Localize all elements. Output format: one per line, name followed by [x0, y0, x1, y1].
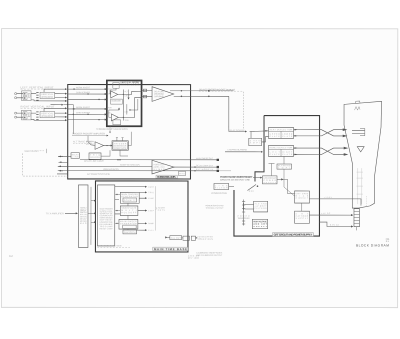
node: terminal square B [217, 166, 219, 168]
wire [88, 136, 95, 146]
node: chopped blanking label [225, 148, 263, 151]
wire: dashed mains [249, 190, 254, 192]
box: CRT circuit outline (notched) [234, 116, 320, 237]
svg-text:MAIN TIME BASE GEN: MAIN TIME BASE GEN [97, 245, 121, 248]
wire: horiz run C [58, 170, 219, 172]
wire [182, 237, 183, 239]
svg-text:CIRCUITS 115 230 VOLT LINE: CIRCUITS 115 230 VOLT LINE [220, 180, 250, 182]
svg-text:NORM MAG SWITCH: NORM MAG SWITCH [103, 168, 120, 171]
svg-text:VERTICAL: VERTICAL [41, 112, 54, 115]
node: mode switch title [120, 81, 139, 86]
svg-text:VERTICAL: VERTICAL [41, 93, 54, 96]
svg-text:EXT HORIZ IN: EXT HORIZ IN [196, 169, 214, 171]
op-amp: left channel amplifier [111, 91, 118, 98]
node: supply note [0, 0, 1, 1]
wire [44, 89, 67, 92]
svg-text:MAG: MAG [80, 222, 87, 225]
svg-text:AC POWER INPUT FUSE: AC POWER INPUT FUSE [211, 192, 228, 195]
box: time base section outline [95, 181, 188, 252]
wire [142, 89, 153, 91]
svg-text:GAIN VERNIER: GAIN VERNIER [76, 111, 91, 114]
svg-text:AND CALIBRATOR OUTPUT: AND CALIBRATOR OUTPUT [196, 254, 223, 257]
node: trigger input labels [86, 141, 95, 146]
node: CRT anode button [355, 101, 360, 103]
wire [55, 97, 67, 99]
svg-text:NORM INVERT: NORM INVERT [76, 107, 91, 109]
wire: horiz run A [80, 159, 218, 161]
node: sweep control text [100, 208, 114, 231]
node: main intensity label [25, 149, 47, 153]
wire: X crossover vert pair [320, 129, 347, 137]
node: LEFT VERT input label [21, 85, 55, 89]
node: CRT circuit heading [272, 233, 313, 237]
component: termination network [143, 95, 146, 98]
wire [31, 93, 36, 95]
wire: run C tail [219, 170, 231, 172]
wire: delay driver output upper [170, 90, 233, 92]
node: selector label [80, 208, 87, 225]
wire [91, 200, 95, 202]
switch S101 input coupling [36, 92, 38, 100]
svg-text:CHOP: CHOP [125, 95, 131, 97]
svg-text:POWER TRANSFORMER PRIMARY: POWER TRANSFORMER PRIMARY [220, 176, 253, 179]
node: to delayed sweep label [196, 235, 214, 240]
box: power switch / line filter [214, 184, 229, 190]
node: alt trace sync label [73, 140, 92, 143]
wire [91, 221, 96, 223]
node: output row tags [148, 186, 154, 232]
wire: vertical links between blocks [127, 203, 129, 230]
node: graticule mark [355, 107, 361, 111]
wire [250, 132, 252, 139]
box: sweep output [123, 230, 137, 234]
node: terminal square A [217, 159, 219, 161]
svg-text:THERMAL CUTOUT: THERMAL CUTOUT [205, 207, 224, 210]
svg-text:TRIG: TRIG [125, 120, 130, 122]
component: termination network [143, 89, 146, 92]
wire [301, 203, 303, 211]
svg-text:TRIG: TRIG [148, 192, 154, 194]
svg-text:VERT DEFLECTION: VERT DEFLECTION [270, 129, 293, 131]
node: sheet note [188, 255, 199, 259]
box: sweep generator [119, 219, 138, 229]
op-amp: trigger amplifier [95, 142, 104, 150]
svg-text:SUPPLY: SUPPLY [253, 226, 267, 228]
wire [294, 135, 320, 137]
svg-text:REV 1980: REV 1980 [188, 258, 199, 260]
svg-text:CH2: CH2 [125, 111, 129, 113]
svg-text:ATTENUATOR: ATTENUATOR [41, 115, 53, 118]
svg-text:MAIN SWEEP OUT: MAIN SWEEP OUT [196, 157, 214, 160]
box: vertical mode switch (thick border) [107, 80, 142, 126]
wire: trigger pickoff between channels [51, 104, 63, 106]
svg-text:HORIZ DEFLECTION: HORIZ DEFLECTION [270, 147, 293, 149]
svg-text:PLATE: PLATE [282, 135, 293, 138]
wire [142, 96, 153, 98]
svg-text:CHOPPED BLANKING: CHOPPED BLANKING [228, 148, 248, 151]
wire: left ch signal rows into mode switch [68, 89, 107, 120]
node: row labels [76, 87, 91, 114]
wire: dashed intensity path [23, 153, 68, 176]
op-amp: delay line driver [152, 87, 174, 102]
wire [118, 93, 124, 95]
svg-text:MAG: MAG [179, 172, 185, 175]
node: row labels left [103, 163, 140, 170]
node: horizontal deflection plates [357, 147, 364, 152]
svg-text:FILTER: FILTER [215, 187, 228, 189]
svg-text:+LV DC: +LV DC [321, 213, 331, 215]
wire: trigger row to delay line box [58, 155, 71, 157]
wire [250, 130, 269, 133]
wire [88, 212, 96, 214]
svg-text:MAIN TIME BASE: MAIN TIME BASE [154, 247, 187, 251]
wire [283, 156, 285, 164]
wire [110, 88, 116, 94]
wire: delay line run down [228, 96, 230, 131]
node: horizontal ampl heading [156, 175, 177, 179]
node: to trigger circuits note [96, 126, 129, 133]
wire [284, 169, 295, 196]
box: Z axis amplifier [249, 138, 262, 145]
connector: CRT base socket [354, 209, 360, 227]
box: delay line [71, 153, 79, 159]
node: rectifier input plug [243, 203, 253, 210]
wire [17, 116, 23, 118]
box: mode logic sub-block [113, 83, 119, 89]
node: terminal square C [217, 170, 219, 172]
svg-text:SWEEP GEN: SWEEP GEN [197, 239, 213, 241]
svg-text:PLATE: PLATE [282, 153, 293, 156]
node: main time base label [97, 245, 130, 248]
wire [262, 137, 269, 142]
svg-text:DIODE GATE: DIODE GATE [111, 99, 121, 102]
svg-text:SWITCH LOGIC: SWITCH LOGIC [120, 84, 139, 86]
wire [44, 108, 67, 111]
switch S601 power [247, 185, 258, 191]
svg-text:CAL OUT: CAL OUT [171, 237, 182, 240]
node: trigger pickoff label [72, 133, 108, 136]
wire: faint drop [365, 196, 367, 207]
svg-text:TO X AMPLIFIER: TO X AMPLIFIER [46, 212, 64, 215]
svg-text:LEFT VERTICAL INPUT: LEFT VERTICAL INPUT [21, 85, 54, 89]
wire [101, 150, 110, 156]
node: junction dots on channel rows [73, 88, 99, 120]
box: trigger source switch [89, 153, 101, 159]
node: X ampl feed label [46, 212, 78, 215]
svg-text:SWEEP TO HORIZ AMPL: SWEEP TO HORIZ AMPL [120, 163, 140, 166]
node: figure number [386, 239, 390, 243]
wire [120, 150, 128, 156]
wire: primary feed to LV supply [253, 177, 262, 179]
wire [277, 178, 283, 180]
wire [31, 118, 67, 121]
svg-text:ATTENUATOR: ATTENUATOR [41, 96, 53, 99]
wire [31, 100, 67, 101]
wire [55, 116, 67, 118]
box: sweep control (tall inner) [97, 185, 114, 246]
wire: T feed [268, 164, 274, 176]
CRT V859 envelope [344, 101, 382, 208]
svg-text:SUPPLY: SUPPLY [296, 218, 309, 220]
wire [17, 112, 23, 114]
node: power transformer label [237, 216, 250, 220]
wire: socket return [355, 227, 357, 231]
box: right channel gate [113, 120, 121, 125]
node: CRT electron gun [356, 168, 363, 204]
svg-text:OUTPUT AMPL: OUTPUT AMPL [154, 95, 165, 98]
wire: short alt sync row [57, 173, 68, 175]
attenuator A101 [40, 92, 55, 98]
wire: +LV to socket [309, 213, 352, 215]
box: cal connector [191, 236, 195, 240]
box: CRT control grid bias [295, 191, 310, 203]
switch S201 input coupling [36, 112, 38, 120]
svg-text:FILTERS: FILTERS [255, 208, 268, 210]
wire [17, 93, 23, 95]
node: time base heading [153, 247, 188, 251]
wire: mode switch internal bus [122, 89, 124, 120]
box: cal out divider [170, 236, 182, 240]
svg-text:PLATE: PLATE [270, 135, 281, 138]
svg-text:CAL: CAL [148, 229, 154, 232]
wire [294, 153, 320, 155]
svg-text:TRIGGER PICKOFF AMPLIFIER: TRIGGER PICKOFF AMPLIFIER [72, 133, 105, 136]
box: high voltage supply [252, 219, 267, 229]
box: +LV rectifier supply [254, 201, 268, 212]
svg-text:HORIZONTAL AMPL: HORIZONTAL AMPL [157, 175, 177, 179]
wire: pickoff drop into switch [64, 105, 74, 134]
connector J201 [15, 110, 31, 120]
node: junction dots [61, 156, 195, 172]
wire: horiz run B [58, 165, 152, 167]
svg-text:READY LAMP: READY LAMP [100, 227, 114, 230]
svg-text:PLATE: PLATE [270, 153, 281, 156]
wire [55, 112, 67, 114]
svg-text:SOURCE: SOURCE [90, 157, 101, 159]
svg-text:DELAY SWP OUT: DELAY SWP OUT [196, 164, 214, 167]
svg-text:3-2: 3-2 [9, 254, 13, 258]
svg-text:MAIN INTENSITY: MAIN INTENSITY [25, 150, 41, 153]
op-amp: right channel amplifier [111, 114, 118, 121]
wire: heater 6.3V to socket [319, 222, 352, 226]
box: low voltage power supply [262, 176, 277, 184]
svg-text:CIRCUIT: CIRCUIT [296, 198, 309, 200]
connector J101 [15, 91, 31, 101]
svg-text:ALT SWEEP SYNC PULSE: ALT SWEEP SYNC PULSE [87, 173, 111, 176]
wire [123, 91, 141, 94]
svg-text:DELAY LINE DRIVE: DELAY LINE DRIVE [84, 160, 105, 163]
box: channel switch diode gate [111, 99, 123, 104]
wire [109, 108, 119, 117]
wire: outline notch to power section [255, 116, 264, 182]
svg-text:+100V: +100V [324, 197, 333, 199]
attenuator A201 [40, 112, 55, 118]
node: calibrated sweep note [196, 251, 223, 256]
svg-text:SUPPLY: SUPPLY [263, 182, 276, 184]
wire [294, 129, 320, 131]
node: power switch label [205, 204, 224, 209]
node: row labels right of box [196, 157, 214, 171]
svg-text:SWP: SWP [148, 210, 154, 212]
wire [17, 97, 23, 99]
svg-text:DELAYED TRIGGER AND GATE OUTPU: DELAYED TRIGGER AND GATE OUTPUTS [199, 88, 236, 91]
wire: horiz run B out [174, 166, 219, 168]
node: to CRT circuit bracket [156, 186, 166, 230]
svg-text:GAIN VERNIER: GAIN VERNIER [76, 91, 91, 94]
svg-text:SAWTOOTH: SAWTOOTH [124, 231, 136, 234]
wire: mode switch trigger feed [128, 132, 131, 146]
transformer T601 [242, 200, 245, 226]
wire: selector to timebase bus [90, 187, 92, 245]
node: delay pickoff label [229, 129, 247, 132]
node: RIGHT VERT input label [21, 104, 55, 108]
svg-text:RAMP: RAMP [148, 222, 154, 225]
box: trigger generator MT [120, 192, 139, 203]
wire: X crossover horiz pair [320, 147, 348, 155]
svg-text:SWEEP GATE: SWEEP GATE [114, 147, 127, 150]
wire [283, 179, 295, 193]
wire: mode switch arrows [127, 89, 138, 114]
wire: grid bias to socket [309, 199, 361, 206]
wire [31, 112, 36, 114]
box: horizontal deflection output amp [269, 145, 294, 156]
svg-text:LINE: LINE [72, 156, 80, 158]
box: CRT cathode supply [295, 211, 310, 223]
node: vertical deflection plates [352, 128, 365, 135]
box: sweep gate MT [120, 206, 138, 216]
svg-text:CKTS: CKTS [158, 210, 166, 212]
svg-text:6.3V AC: 6.3V AC [330, 223, 340, 226]
box: trigger source selector (tall) [78, 185, 88, 248]
box: vertical amplifier section outline [68, 85, 191, 179]
box: vertical deflection output amp [269, 127, 294, 138]
wire: short stub row [59, 161, 68, 163]
svg-text:SCHMITT: SCHMITT [124, 200, 136, 202]
wire [104, 145, 112, 147]
wire [55, 93, 67, 95]
node: mode switch internal marks [108, 89, 131, 122]
op-amp: horizontal output amplifier [152, 160, 174, 174]
svg-text:HOLDOFF: HOLDOFF [121, 212, 137, 214]
wire: timebase output rows [115, 187, 147, 230]
svg-text:GATE: GATE [148, 186, 154, 189]
wire [294, 147, 320, 149]
wire [118, 116, 123, 118]
svg-text:CRT CIRCUIT AND POWER SUPPLY: CRT CIRCUIT AND POWER SUPPLY [274, 233, 313, 237]
svg-text:TO TRIGGER CIRCUITS VIA MODE S: TO TRIGGER CIRCUITS VIA MODE SWITCH [96, 128, 129, 131]
wire: dashed delayed trigger [243, 92, 245, 129]
wire [229, 186, 234, 188]
wire: gate box top feeds [116, 138, 124, 141]
box: mag register [178, 171, 185, 175]
svg-text:SYNC: SYNC [148, 198, 154, 200]
svg-text:BLOCK DIAGRAM: BLOCK DIAGRAM [356, 243, 389, 247]
svg-text:RIGHT VERTICAL INPUT: RIGHT VERTICAL INPUT [21, 104, 55, 108]
node: feed dots [116, 194, 117, 224]
node: junction dot on trigger row [208, 90, 210, 92]
node: delayed trigger output label [199, 88, 244, 91]
box: blanking amplifier [277, 164, 292, 170]
svg-text:NORM INVERT: NORM INVERT [76, 87, 91, 89]
box: sweep gate multivibrator (double border) [112, 141, 128, 151]
wire [123, 98, 141, 118]
wire: delay driver output lower [174, 95, 229, 97]
wire: tall box feeds [115, 194, 121, 223]
box: cal attenuator [183, 236, 190, 240]
wire [167, 236, 170, 238]
